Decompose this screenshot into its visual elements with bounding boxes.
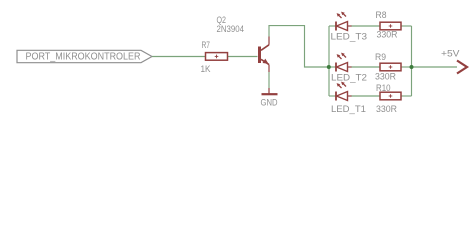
- svg-text:LED_T3: LED_T3: [331, 32, 368, 43]
- svg-text:2N3904: 2N3904: [217, 24, 245, 35]
- svg-text:R9: R9: [375, 52, 386, 63]
- svg-text:PORT_MIKROKONTROLER: PORT_MIKROKONTROLER: [26, 51, 141, 62]
- svg-text:R7: R7: [202, 40, 211, 51]
- svg-text:GND: GND: [261, 98, 278, 109]
- svg-text:LED_T2: LED_T2: [331, 73, 367, 84]
- svg-text:330R: 330R: [375, 71, 396, 82]
- svg-text:LED_T1: LED_T1: [331, 104, 366, 115]
- svg-text:R10: R10: [376, 83, 391, 94]
- svg-text:R8: R8: [376, 10, 387, 21]
- svg-text:1K: 1K: [201, 64, 211, 75]
- svg-text:330R: 330R: [377, 29, 398, 40]
- svg-text:330R: 330R: [376, 104, 397, 115]
- svg-text:+5V: +5V: [441, 49, 460, 60]
